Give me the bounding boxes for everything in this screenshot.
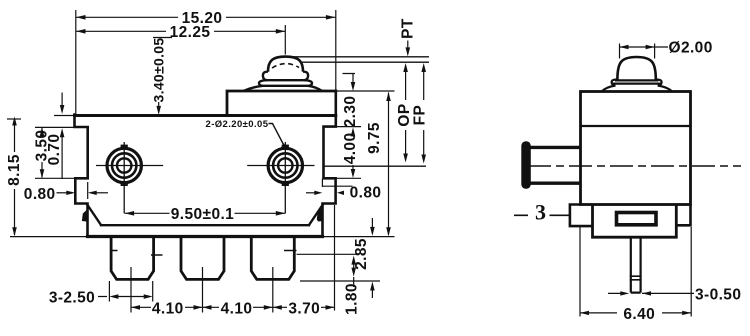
extension line right ear down [334, 205, 336, 311]
dimension 9.50±0.1 [125, 212, 286, 214]
dimension 3.50 [35, 127, 75, 178]
sealant blob bottom-right [317, 208, 323, 221]
svg-text:4.10: 4.10 [221, 300, 253, 317]
side bellows flare [602, 86, 672, 92]
body right profile [323, 91, 336, 237]
svg-text:0.80: 0.80 [24, 186, 56, 203]
plunger dome (front) [244, 57, 323, 91]
bottom flange left [570, 205, 593, 227]
dimension 0.70 [54, 93, 74, 180]
svg-text:0.70: 0.70 [46, 134, 63, 166]
svg-text:2.30: 2.30 [342, 96, 359, 128]
dimension 4.10 (second) [203, 306, 273, 308]
pin black cap [521, 141, 531, 189]
centreline (dash-dot) [528, 165, 741, 167]
prong shoulder extension line [297, 253, 358, 255]
svg-text:Ø2.00: Ø2.00 [669, 39, 713, 56]
bottom flange right [676, 205, 690, 226]
svg-text:2-Ø2.20±0.05: 2-Ø2.20±0.05 [206, 119, 269, 130]
FP pointer [423, 71, 425, 155]
terminal prong 3 [251, 237, 294, 280]
dimension 1.80 [353, 262, 355, 287]
svg-text:1.80: 1.80 [343, 283, 360, 315]
svg-text:3-0.50: 3-0.50 [695, 286, 741, 303]
dimension 3-2.50 [109, 281, 152, 302]
side bellows [612, 79, 662, 85]
OP pointer [405, 71, 407, 154]
extension 12.25 right to dome [284, 25, 286, 55]
arrowheads 12.25 [76, 29, 285, 34]
dimension line 12.25 [76, 30, 285, 32]
dashed ball arc inside dome [272, 64, 299, 68]
dimension 2.85 [371, 218, 373, 298]
extension line left (15.20/12.25) [75, 10, 77, 114]
switch body top/seam line [75, 114, 336, 117]
inner skirt diagonals and base insert line [88, 205, 323, 225]
svg-text:3.70: 3.70 [288, 300, 320, 317]
svg-text:3: 3 [535, 200, 546, 225]
svg-text:4.00: 4.00 [342, 133, 359, 165]
svg-text:9.50±0.1: 9.50±0.1 [171, 206, 234, 223]
boss (raised step) top and left edge [227, 91, 336, 116]
dimension 4.10 (first) [131, 306, 203, 308]
dimension 9.75 [323, 91, 395, 237]
bellows flare to boss [244, 86, 323, 91]
terminal prong 1 [111, 237, 154, 280]
extension line right (15.20) [335, 10, 337, 90]
svg-text:9.75: 9.75 [366, 122, 383, 154]
extension lines right of body (step & ear bottom) [336, 127, 361, 179]
dimension 6.40 [580, 227, 691, 317]
rivet terminal left [107, 148, 141, 182]
prong crimp ticks [630, 276, 642, 280]
dimension 3-0.50 [608, 292, 694, 294]
dimension Ø2.00 [620, 44, 669, 59]
svg-text:PT: PT [400, 18, 417, 39]
PT / OP / FP reference lines [292, 57, 429, 166]
svg-text:6.40: 6.40 [623, 306, 655, 323]
svg-text:3-2.50: 3-2.50 [49, 290, 95, 307]
base bottom edge [88, 235, 323, 238]
terminal prong 2 [181, 237, 224, 280]
svg-text:3.40±0.05: 3.40±0.05 [151, 38, 167, 103]
body left profile [75, 115, 88, 237]
svg-text:4.10: 4.10 [152, 300, 184, 317]
dimension line 15.20 [76, 16, 335, 18]
right stack: 2.30 / 4.00 [343, 74, 356, 171]
prong bottom extension line [300, 280, 380, 282]
svg-text:12.25: 12.25 [170, 24, 211, 41]
side actuator pin [530, 147, 581, 183]
prong centre extension lines [131, 267, 273, 313]
sealant blob bottom-left [82, 209, 89, 222]
dimension 8.15 [7, 118, 21, 120]
svg-text:8.15: 8.15 [6, 154, 23, 186]
dimension 3.40±0.05 [153, 37, 172, 39]
svg-text:0.80: 0.80 [350, 185, 382, 202]
bellows band B [259, 80, 312, 86]
side body [581, 92, 691, 205]
prong shoulder ticks [111, 251, 297, 256]
side terminal prong [631, 237, 641, 292]
side plunger dome [617, 57, 655, 80]
extension line 0.80 right lower edge [322, 179, 352, 188]
side cover seam [581, 125, 691, 127]
base slot [617, 213, 657, 225]
bellows band A [263, 72, 308, 81]
arrowheads 15.20 [76, 15, 335, 20]
dimension 3.70 [273, 306, 335, 308]
svg-text:2.85: 2.85 [353, 238, 370, 270]
base block [593, 205, 677, 238]
rivet terminal right [268, 148, 302, 182]
svg-text:FP: FP [411, 105, 428, 126]
